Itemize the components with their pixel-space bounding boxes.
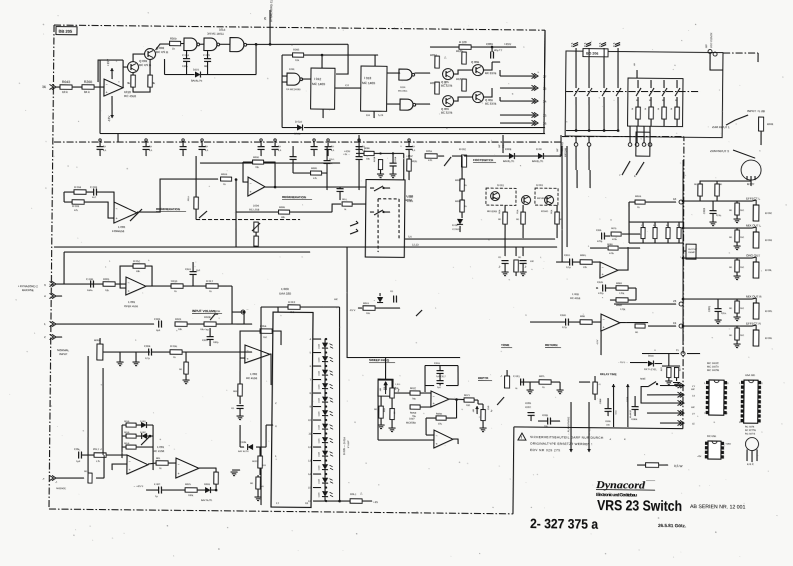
relay box S001 REVERB [535, 188, 558, 205]
led bottom wire [313, 500, 350, 503]
opamp sweep A 1007 [431, 391, 449, 407]
capacitor C026 [602, 284, 604, 291]
bus 12-13 [54, 242, 557, 253]
resistor R0SB vert [378, 160, 382, 170]
frame top border [54, 25, 545, 30]
resistor R094 with delta [435, 56, 440, 68]
resistor R017 [206, 284, 218, 289]
resistor R0E1 [258, 456, 263, 468]
opamp 1008b [601, 314, 620, 331]
wire q001 base [123, 66, 128, 68]
dash-dot under BD206 [562, 135, 684, 138]
resistor R010 [171, 284, 183, 289]
diode D021 BAV5L/70 [195, 71, 200, 77]
wire b007 down [750, 181, 752, 186]
frame bottom border [49, 509, 513, 514]
capacitor C008b [547, 417, 549, 424]
wire I012 to I013 [335, 87, 361, 90]
lw reverb vertical [560, 135, 562, 156]
delay cap C0S1 [520, 379, 522, 386]
resistor R0B2 [616, 298, 628, 303]
relay transistors [490, 191, 499, 200]
fb wires 1002 [240, 331, 260, 358]
wire ansage [56, 477, 84, 480]
diode D008 [509, 153, 514, 159]
gnd delay [529, 382, 531, 390]
wire normal input [103, 351, 150, 354]
wire 16 corner down [628, 202, 631, 230]
det top wire 31 [642, 352, 679, 355]
terminal arrow tone input [416, 310, 422, 316]
DIP IC right [744, 380, 758, 423]
jack symbol delay [504, 376, 509, 388]
arrow zum input 1 [726, 115, 748, 126]
resistor R095b [435, 82, 440, 94]
resistor R009 vertical [238, 384, 243, 396]
wire to 1002 [152, 351, 170, 353]
resistor MIX OUT R [735, 301, 740, 313]
capacitor C008 [90, 280, 92, 287]
capacitor C015 [204, 58, 211, 60]
wire q002 chain [133, 54, 145, 62]
frame right dash-dot vertical [681, 137, 686, 429]
capacitor C0SB vert [389, 162, 396, 164]
mid cluster caps row [600, 233, 602, 240]
wire 1005 out [199, 468, 217, 489]
wire R500 to gate [181, 42, 184, 44]
capacitor C001 [714, 308, 721, 310]
capacitor C0L1 hang2 [323, 160, 330, 162]
nand gate 1015a [399, 69, 412, 80]
ladder loop wires [121, 425, 123, 447]
long bus y163 [200, 162, 340, 165]
transistor Q007 BC337B [472, 64, 483, 75]
resistor R099 [310, 171, 321, 175]
main right vertical bus [681, 160, 685, 345]
transistor Q006 BC327B [442, 95, 453, 106]
IC I013 MC 14093 [361, 66, 387, 111]
uaa pin stub top [277, 307, 279, 312]
wire regen out [137, 178, 218, 213]
frame left border [49, 25, 54, 509]
resistor R003 [72, 200, 84, 205]
resistor R0B1 [616, 286, 628, 291]
resistor R058 [460, 200, 465, 212]
resistor R0LJ [350, 499, 362, 504]
transistor Q005 BC327B [442, 68, 453, 79]
resistor R0S2 [410, 391, 420, 395]
mid vertical cluster [641, 227, 645, 238]
left bus drop [99, 60, 100, 134]
inner resistor ladder [637, 80, 639, 88]
diode C00N [248, 444, 253, 450]
resistor out 19 [635, 324, 645, 328]
resistor R006 [170, 350, 182, 355]
resistor R106 [462, 79, 467, 91]
wire into box top [402, 153, 405, 179]
-15V supply [111, 96, 114, 118]
resistor vert 196 [194, 197, 199, 209]
resistor R057 [460, 179, 465, 191]
BB 205 label box [56, 27, 77, 35]
resistor R0S3 [410, 405, 420, 409]
hanging caps row [99, 139, 101, 141]
resistor R00L [156, 461, 168, 466]
BD 206 label [583, 49, 608, 57]
wire bus from relays down [504, 238, 506, 247]
DIP IC RC U56 [708, 441, 721, 459]
wire emitter up to R500 [156, 44, 169, 50]
wire r099 [293, 172, 311, 174]
connector switch diagonals [622, 161, 630, 175]
vertical drop 196 [195, 156, 196, 216]
wire to depth pot [474, 399, 478, 401]
resistor into 1008a [580, 260, 592, 265]
wire input 1 [56, 323, 154, 325]
wire 19 to left [648, 325, 676, 328]
capacitor C0N4 [78, 451, 80, 458]
wire 1002a out down [270, 354, 272, 385]
diode sweep [377, 297, 383, 302]
clock stub to page top [269, 10, 272, 44]
wire node MIX OUT L [683, 227, 752, 228]
resistor R048 input [220, 177, 231, 181]
wire input 3 [56, 283, 126, 285]
wire opamp vertical [600, 330, 602, 355]
capacitor C016 C017 pair [437, 370, 444, 372]
capacitor C030 [564, 318, 566, 325]
wire feedback loop [122, 60, 125, 88]
resistor pair near b007 [698, 184, 703, 196]
jack B002 footswitch [461, 155, 466, 167]
BD 206 box [565, 51, 723, 138]
sweep pot left [390, 388, 395, 398]
det resistors [667, 367, 671, 377]
wires 1008b [530, 321, 566, 324]
opamp B output [453, 439, 458, 444]
wire gate3 out to clock and I012 [247, 43, 349, 45]
jack B008 [758, 117, 763, 131]
transistor EBC [745, 437, 758, 450]
uaa left rail [259, 307, 263, 505]
frame bottom step vertical [512, 427, 515, 514]
capacitor C003 [93, 189, 95, 196]
vertical bus right [499, 70, 501, 76]
box left arrows [350, 223, 358, 226]
vcc contr entry [708, 49, 712, 53]
capacitor C010 [569, 259, 571, 266]
gnd stubs normal input [119, 352, 121, 362]
resistor below trim [254, 236, 259, 246]
wire r022 [261, 306, 288, 309]
wire gates to transistors [415, 72, 431, 74]
uaa input node [243, 311, 246, 314]
depth pot [481, 409, 486, 420]
wire node EFFECT L [683, 200, 752, 201]
wire I013 outputs [387, 72, 400, 74]
wires fb 1008 [596, 287, 598, 289]
wire 16 to left [629, 201, 676, 204]
wires 1008a [556, 261, 570, 263]
led right rail [337, 307, 341, 501]
resistor R0h4 fb [260, 329, 272, 334]
wire r096 row [236, 211, 279, 214]
long wire to 1002b [346, 247, 461, 359]
sweep pot resistor [379, 406, 384, 418]
meterb verticals [561, 146, 564, 262]
resistor R096 row [278, 210, 289, 214]
transistor Q002 BC546B [144, 48, 155, 59]
warning triangle [518, 433, 526, 440]
switch diagonals in box [374, 186, 383, 191]
opamp 1008a [600, 262, 618, 278]
capacitor C009 [490, 51, 492, 58]
resistor R200 [82, 85, 94, 90]
nand gate 1014a [184, 38, 197, 51]
frame top-right corner drop [543, 30, 546, 90]
resistor R500 [169, 41, 180, 46]
resistor R095 [292, 53, 303, 57]
wire to 1001b [82, 454, 94, 456]
nand gate 1014c [230, 38, 244, 52]
resistor R004 [74, 190, 86, 195]
ic bottom pins [322, 109, 324, 118]
BD206 underside circles [574, 143, 578, 147]
resistor ORG OUT [735, 260, 740, 272]
bus pair under oscillator [117, 133, 119, 142]
wire node EFFECT R [683, 325, 752, 326]
uaa left components [266, 424, 273, 426]
opamp 1003 trim arrow [130, 209, 142, 221]
left margin verticals [87, 356, 89, 473]
IC U1009 UAA180 box [271, 312, 313, 507]
dash from box to vcc [723, 52, 758, 55]
terminal circles right bus [679, 200, 683, 204]
feedback R0h2 [133, 264, 145, 269]
sweep input wires [420, 392, 431, 394]
sweep pot box [378, 379, 393, 396]
output 150mp box [686, 244, 696, 259]
rail verticals [321, 55, 323, 68]
wire opamp plus input [98, 60, 123, 82]
arrow zum input 3 [733, 150, 755, 158]
pot trim 1004 [254, 222, 259, 232]
nand gate 1011 [287, 73, 300, 85]
capacitor C009b [190, 271, 197, 273]
resistor R100 [459, 45, 471, 50]
led diodes D005-D016 [322, 343, 328, 348]
bus 5-6 [405, 237, 555, 240]
transistor Q008 BC337B [472, 91, 483, 102]
lw echo vertical [502, 135, 504, 153]
IC I006 4066 switch box [365, 179, 405, 257]
resistor R021 [175, 322, 187, 327]
resistor R007 vertical [184, 362, 189, 374]
box dashed control lines [377, 199, 378, 252]
regen ladder [126, 423, 136, 427]
output terminal wires [500, 75, 534, 78]
wire r096b right [374, 152, 404, 155]
pot R0L7 [94, 453, 106, 458]
feedback wires 1001 [120, 266, 133, 288]
wire 1001b to 1005 [148, 463, 156, 464]
vertical pair with up arrows [612, 384, 615, 427]
IC I012 MC 14093 [311, 68, 335, 109]
resistor EFFECT L [735, 203, 740, 215]
opamp 1003 left [114, 202, 137, 223]
wires feedback row [146, 489, 158, 491]
switch box wires [641, 386, 660, 403]
delay row [520, 381, 560, 384]
opamp 1002a [245, 345, 270, 363]
resistor EFFECT R [735, 328, 740, 340]
row into switch box [332, 204, 341, 212]
relay resistors [503, 212, 508, 224]
feedback R0S5 row [436, 416, 446, 420]
resistor R105 [462, 52, 467, 64]
wire 1011 inputs [282, 75, 287, 77]
resistor R022 top [288, 305, 300, 310]
sweep left loop [377, 380, 378, 440]
sweep loop wires [425, 364, 458, 367]
wire input to opamp [56, 87, 104, 88]
capacitor C002 [709, 210, 716, 212]
corner vertical right [544, 30, 545, 133]
wire q collectors [132, 73, 134, 75]
wires regen opamp [64, 191, 74, 193]
wire node ORG OUT [683, 257, 752, 258]
capacitor C004 [148, 349, 150, 356]
+15V supply [111, 68, 113, 79]
opamp sweep B 1007 [434, 430, 453, 448]
diode D003 [205, 487, 210, 493]
capacitor C014 [183, 58, 190, 60]
resistor R0LL box input [342, 202, 352, 206]
switch column wires [575, 48, 578, 88]
wire regen2 out [275, 186, 366, 188]
center cap C031 [337, 188, 344, 190]
wires diodes [464, 155, 509, 158]
cluster components [501, 259, 508, 261]
capacitor sweep [393, 295, 395, 302]
mid cluster row2 [608, 246, 618, 250]
terminal 2 node [241, 310, 245, 314]
pot R043 [60, 85, 72, 90]
resistor R0E2 [256, 477, 261, 489]
diode D009 [538, 153, 543, 159]
D022 bus line [281, 95, 284, 128]
wire gates [200, 43, 205, 45]
resistor MIX OUT L [735, 230, 740, 242]
connector B007 [741, 160, 761, 180]
wire node MIX OUT R [683, 298, 752, 299]
wire 1011 to I012 [302, 78, 312, 80]
resistor R201 vertical [131, 75, 136, 87]
sweep resistor below pot [390, 408, 395, 419]
wire right to 1002 stage [232, 323, 252, 325]
caps bus [164, 73, 194, 76]
wire corner into I012 [336, 44, 348, 74]
center caps cluster [504, 247, 506, 256]
capacitor C090 [356, 156, 363, 158]
caps stack right [632, 406, 639, 408]
label LB above inner box [636, 70, 638, 78]
terminal rows right [660, 384, 683, 386]
BD206 inner box [627, 78, 682, 127]
verticals 577 590 [576, 170, 578, 188]
delay pot [593, 382, 598, 394]
diode D022 [297, 124, 302, 130]
frame dash-dot mid [54, 137, 562, 148]
ganged switch dash line [566, 90, 700, 93]
switch arrow bottom left [141, 436, 150, 445]
relay box S001 ECHO [486, 188, 516, 205]
depth wiper arrow [497, 397, 504, 405]
ladder to opamp wires [121, 447, 123, 458]
nand gate 1014b [204, 38, 217, 51]
footswitch switch [438, 155, 444, 157]
resistor R202 vertical [148, 75, 153, 87]
opamp 1001b [127, 455, 148, 474]
DIP IC left [709, 380, 724, 415]
capacitor C019 [207, 336, 214, 338]
resistor R026 vertical [214, 472, 219, 484]
transistor Q001 BC546B [127, 61, 138, 72]
bus line 1 [100, 129, 545, 138]
frame step horizontal [514, 427, 683, 429]
capacitor C014b [237, 405, 244, 407]
connector rect below BD206 [636, 132, 650, 156]
dashed control line [196, 218, 300, 220]
gnd left of uaa [232, 469, 240, 471]
feedback loop 1004 [243, 161, 253, 163]
BD206 inner bus [566, 130, 618, 131]
wire 1001 out [146, 285, 228, 287]
control arrow [199, 211, 207, 218]
transistor block wires [454, 70, 473, 74]
+15V rail top right [430, 46, 459, 49]
opamp 1001 [126, 277, 146, 295]
resistor 0,5W [646, 463, 659, 468]
capacitor C0x1 hang [290, 156, 297, 158]
diode D097 [457, 219, 463, 224]
connector verticals [629, 126, 631, 143]
jack B009 [97, 344, 103, 360]
opamp 1004 regen2 [248, 177, 265, 196]
resistor R096b [364, 151, 374, 155]
resistor R0B3 [580, 320, 592, 325]
wire vcc into box [710, 53, 723, 70]
nand gate 1015b [400, 99, 413, 110]
misc center resistors [407, 159, 412, 171]
switch cluster lower left [112, 464, 127, 470]
capacitor C005 [158, 321, 160, 328]
sweep output junction [449, 398, 464, 401]
top return bus [64, 249, 310, 254]
resistor R005a [103, 282, 115, 287]
node to uaa [187, 323, 204, 325]
node dot regen2 [235, 178, 238, 181]
pot R028 input volume [204, 322, 216, 327]
wire 23 to left [614, 303, 676, 304]
wire delay right [579, 381, 590, 383]
rail y55 [282, 54, 293, 56]
feedback R050 [252, 160, 263, 164]
sweep bottom wire [378, 439, 434, 440]
opamp 1005 [176, 458, 199, 478]
vertical from gate out [255, 44, 258, 74]
resistor R0Y1 [464, 398, 474, 402]
